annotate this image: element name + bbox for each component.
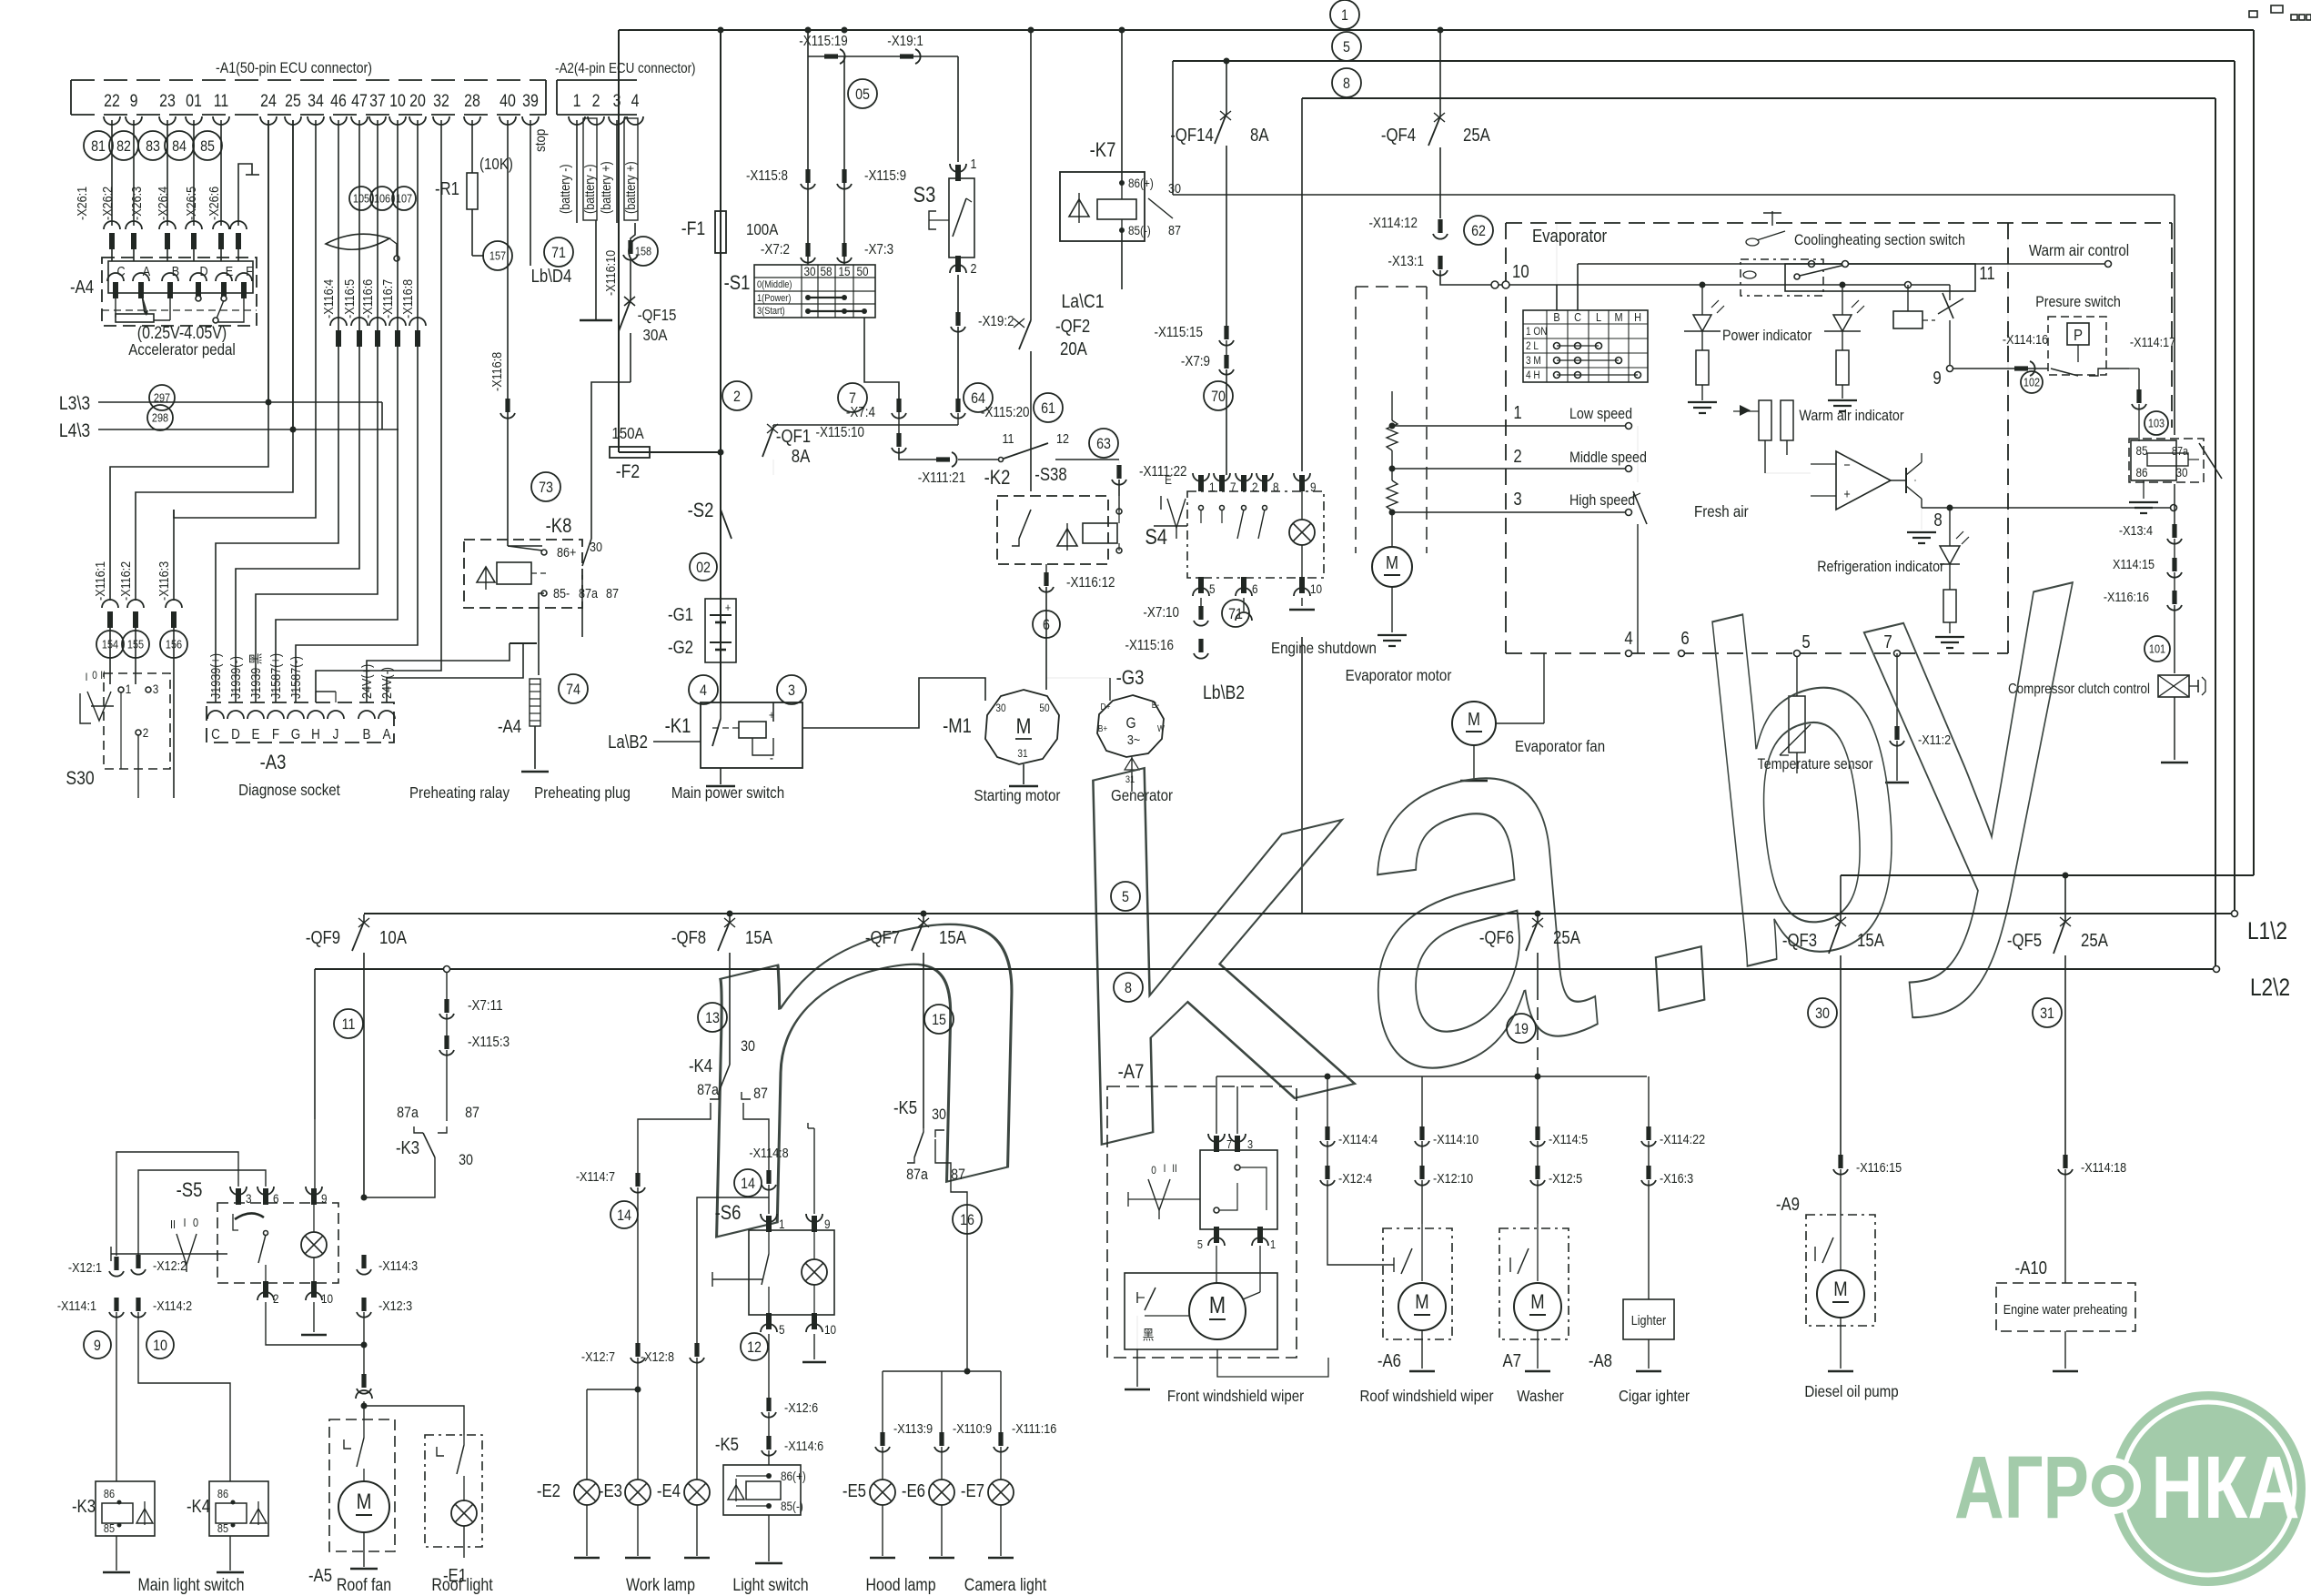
svg-text:Warm air indicator: Warm air indicator [1799,408,1903,424]
svg-text:C: C [1574,310,1581,324]
node 8 bus circle [1332,68,1361,97]
svg-text:3: 3 [613,91,621,111]
connector X7:9 [1226,340,1227,357]
svg-text:86: 86 [104,1487,115,1500]
svg-text:-X114:1: -X114:1 [57,1298,96,1313]
roof fan feed connectors [361,1255,366,1268]
svg-text:25A: 25A [2081,930,2108,951]
svg-text:158: 158 [635,245,652,258]
svg-text:46: 46 [330,91,347,111]
svg-text:АГР: АГР [1954,1439,2089,1537]
svg-text:-QF3: -QF3 [1782,930,1817,951]
svg-text:82: 82 [116,138,131,155]
svg-text:-A9: -A9 [1776,1194,1800,1215]
svg-text:0: 0 [193,1216,198,1229]
svg-text:II: II [100,670,106,682]
svg-text:83: 83 [146,138,160,155]
svg-text:-QF4: -QF4 [1381,125,1416,146]
svg-text:87a: 87a [697,1082,719,1098]
connector X7:4 [896,399,901,412]
node 73 [531,472,560,501]
svg-text:39: 39 [522,91,539,111]
svg-text:2: 2 [970,260,976,276]
svg-text:-QF5: -QF5 [2007,930,2042,951]
svg-text:-K4: -K4 [187,1496,210,1517]
svg-text:58: 58 [820,264,832,278]
dashed joints 4 6 [1626,651,1632,657]
svg-text:M: M [1415,1292,1428,1314]
svg-text:J: J [333,727,339,742]
svg-text:Fresh air: Fresh air [1694,502,1749,521]
logo AGRO NKA [1954,1391,2306,1586]
svg-text:15A: 15A [1857,930,1884,951]
compressor chain [2174,484,2175,526]
svg-text:L2\2: L2\2 [2250,974,2290,1001]
ground hook A3 [510,642,537,644]
connector X12:2 [136,1255,140,1268]
svg-text:87: 87 [951,1167,965,1183]
svg-text:L4\3: L4\3 [59,420,90,442]
svg-text:H: H [311,727,320,742]
svg-text:H: H [1634,310,1641,324]
corner marks top right [2249,11,2257,17]
svg-text:(battery +): (battery +) [598,161,613,214]
svg-text:5: 5 [1343,39,1350,56]
svg-text:5: 5 [1209,581,1216,596]
svg-text:10: 10 [1310,581,1322,596]
svg-text:-X7:11: -X7:11 [468,998,503,1014]
node 31 [2033,998,2062,1027]
node 61 [1034,393,1063,422]
coolingheating section switch [1785,264,1975,291]
wires to K3 K4 coils [116,1312,117,1481]
svg-text:30: 30 [1168,180,1181,196]
svg-text:-K8: -K8 [546,516,572,538]
svg-text:-X116:4: -X116:4 [320,279,336,318]
cigar lighter A8 [1648,1224,1650,1299]
svg-text:298: 298 [152,411,169,425]
node 298 [147,405,173,430]
svg-text:-S1: -S1 [724,273,751,295]
wire S1 30 column [807,30,809,265]
svg-text:Hood lamp: Hood lamp [865,1575,935,1595]
wire S4 pin10 ground [1301,598,1303,606]
svg-text:黑: 黑 [1143,1327,1155,1342]
svg-text:10: 10 [321,1291,333,1306]
svg-text:150A: 150A [611,424,644,443]
K8 contact [590,525,592,539]
svg-text:-X19:2: -X19:2 [978,314,1014,329]
svg-text:-E4: -E4 [657,1480,681,1501]
svg-text:86(+): 86(+) [1128,176,1154,190]
connector X116:12 [1045,564,1047,573]
svg-text:-X116:1: -X116:1 [92,561,107,601]
svg-text:Accelerator pedal: Accelerator pedal [128,340,236,359]
svg-text:Roof windshield wiper: Roof windshield wiper [1360,1387,1494,1406]
wire S6 pin9 up [813,1128,815,1214]
svg-text:X114:15: X114:15 [2113,556,2155,571]
wire K8 85 to plug [539,593,544,675]
svg-text:-X26:4: -X26:4 [155,187,170,220]
svg-text:-K3: -K3 [72,1496,96,1517]
svg-text:-X114:18: -X114:18 [2081,1159,2126,1175]
svg-text:Power indicator: Power indicator [1722,328,1811,344]
svg-text:40: 40 [500,91,516,111]
svg-text:Preheating ralay: Preheating ralay [409,783,510,803]
speed table [1523,310,1648,382]
wire S4 pin6 down [1243,598,1245,611]
pedal switch [196,296,201,301]
svg-text:-X12:5: -X12:5 [1549,1170,1582,1186]
svg-text:E: E [1165,472,1172,487]
wire bus5 y67 [1173,60,2235,62]
svg-text:-X114:4: -X114:4 [1338,1131,1378,1146]
wire net10 line y313 [1557,284,1950,286]
hood camera feed line [883,1370,1001,1372]
svg-text:24: 24 [260,91,277,111]
node 05 [848,79,877,108]
svg-text:Roof light: Roof light [431,1575,492,1595]
battery G1 G2 [705,599,736,662]
svg-text:103: 103 [2148,417,2165,430]
svg-text:-X115:10: -X115:10 [815,425,864,440]
svg-text:1: 1 [970,156,976,171]
wire QF4 into evap [1440,270,1557,285]
svg-text:85: 85 [2135,443,2147,458]
breaker QF5 25A [2064,875,2066,921]
wire K7 30 riser [1172,61,1174,195]
roof fan A5 [329,1419,395,1551]
svg-text:7: 7 [1230,480,1236,494]
svg-text:-X116:6: -X116:6 [359,279,375,318]
svg-text:-K2: -K2 [984,468,1011,490]
svg-text:-X116:2: -X116:2 [117,561,133,601]
wire K1 to M1 [802,678,985,728]
svg-text:k: k [1052,627,1366,1260]
svg-text:12: 12 [1056,430,1069,446]
svg-text:50: 50 [1039,702,1049,714]
battery labels A2 [576,120,578,223]
svg-text:-QF7: -QF7 [865,927,900,948]
svg-text:P: P [2074,326,2083,345]
S4 lamp [1289,520,1315,545]
svg-text:8: 8 [1343,76,1350,92]
svg-text:-X12:6: -X12:6 [784,1399,818,1415]
svg-text:16: 16 [960,1212,974,1228]
svg-text:M: M [1614,310,1622,324]
svg-text:E: E [226,263,233,278]
svg-text:-QF8: -QF8 [671,927,706,948]
svg-text:-X12:8: -X12:8 [641,1349,674,1364]
svg-text:M: M [357,1489,372,1513]
svg-text:22: 22 [104,91,120,111]
wire QF14 to S4 pin7 [1222,474,1226,476]
S5 internals [233,1214,238,1230]
node 85 [193,131,222,160]
svg-text:30: 30 [995,702,1005,714]
node 2 [722,381,752,410]
connector X111:22 [1118,460,1120,464]
svg-text:5: 5 [1122,889,1129,905]
svg-text:-X116:12: -X116:12 [1066,575,1115,591]
svg-text:11: 11 [214,91,229,111]
svg-text:M: M [1530,1292,1544,1314]
node 3 [777,675,806,704]
node 11 [334,1009,363,1038]
work lamps E2 E3 E4 [635,1343,640,1357]
node 83 [138,131,167,160]
svg-text:L3\3: L3\3 [59,393,90,415]
svg-text:Front windshield wiper: Front windshield wiper [1167,1387,1305,1406]
svg-text:8: 8 [1125,980,1132,996]
svg-text:-X114:17: -X114:17 [2130,334,2175,349]
svg-text:Low speed: Low speed [1569,406,1632,422]
svg-text:30: 30 [803,264,815,278]
svg-text:87a: 87a [906,1167,928,1183]
wire right edge vertical net5 [2234,61,2235,914]
svg-text:-X19:1: -X19:1 [887,34,923,49]
svg-text:15A: 15A [939,927,966,948]
svg-text:02: 02 [696,560,711,576]
wire bus1 left vertical [618,30,620,452]
svg-text:9: 9 [130,91,138,111]
wire to roof light E1 [364,1406,464,1435]
svg-text:1: 1 [1513,402,1521,423]
svg-text:-G1: -G1 [668,604,693,625]
wire K7 to compressor line [1173,194,2175,196]
svg-text:-X12:3: -X12:3 [378,1298,412,1313]
breaker QF6 25A [1535,911,1541,917]
svg-text:-K5: -K5 [715,1434,739,1455]
svg-text:-X16:3: -X16:3 [1660,1170,1693,1186]
connector X114:7 [635,1173,640,1187]
wiper ground [1136,1349,1138,1387]
svg-text:9: 9 [94,1338,101,1354]
breaker QF15 30A [630,260,631,300]
svg-text:II: II [1172,1163,1177,1175]
svg-text:9: 9 [1933,368,1941,389]
wire right edge vertical net1 [2253,30,2255,875]
svg-text:-X111:22: -X111:22 [1139,464,1187,480]
node 105 [349,187,373,210]
svg-text:30A: 30A [643,326,669,345]
node 5 bottom [1111,882,1140,911]
wire L3 [98,401,382,403]
svg-text:-X114:6: -X114:6 [784,1438,823,1453]
svg-text:-X13:1: -X13:1 [1388,254,1424,269]
evaporator fan [1452,702,1496,745]
node 5 bus circle [1332,32,1361,61]
wire right edge vertical net8 [2215,98,2216,968]
svg-text:Diagnose socket: Diagnose socket [238,781,340,800]
svg-text:-X26:1: -X26:1 [74,187,89,220]
svg-text:-X116:8: -X116:8 [489,352,504,391]
connector X12:1 [114,1257,118,1270]
svg-text:9: 9 [1310,480,1317,494]
wire staircase bundle to A3 [216,120,338,702]
svg-text:11: 11 [342,1016,356,1033]
svg-text:-X114:10: -X114:10 [1433,1131,1478,1146]
svg-text:50: 50 [856,264,868,278]
svg-text:101: 101 [2149,642,2166,656]
pedal potentiometer [116,314,154,322]
svg-text:4: 4 [631,91,640,111]
svg-text:87a: 87a [579,585,598,601]
svg-text:8A: 8A [1250,125,1269,146]
node 6 [1033,611,1060,638]
ground battery minus [580,319,612,321]
svg-text:-F2: -F2 [616,461,640,483]
svg-text:+: + [725,601,731,614]
wire bus L2 y1065 [315,968,2215,970]
evap motor dashed box [1355,287,1357,553]
node 19 [1507,1014,1536,1043]
node 15 [924,1005,954,1034]
connector X116:10 [628,240,632,254]
svg-text:15: 15 [838,264,850,278]
wire y467 QF1 [773,424,958,426]
svg-text:10A: 10A [379,927,407,948]
wire S6 pin5 chain [768,1334,770,1398]
svg-text:25: 25 [285,91,301,111]
svg-text:-X7:4: -X7:4 [846,405,875,420]
relay coil mid [1893,311,1922,328]
svg-text:0: 0 [92,670,97,682]
breaker QF14 8A [1226,61,1227,114]
svg-text:87: 87 [465,1105,479,1121]
svg-text:-X116:16: -X116:16 [2104,589,2149,604]
connector X7:3 [842,243,846,257]
svg-text:10: 10 [824,1322,836,1337]
svg-text:-E6: -E6 [902,1480,925,1501]
svg-text:86: 86 [217,1487,228,1500]
svg-text:-X111:21: -X111:21 [918,470,966,486]
svg-text:-K4: -K4 [689,1056,712,1076]
svg-text:Warm air control: Warm air control [2029,241,2129,260]
svg-text:87a: 87a [2172,444,2189,458]
connector X115:20 [955,399,960,412]
svg-text:Evaporator: Evaporator [1532,226,1607,247]
svg-text:85(-): 85(-) [781,1499,803,1513]
svg-text:2: 2 [1513,446,1521,467]
svg-text:25A: 25A [1553,927,1580,948]
wiper bottom wire [1217,1349,1328,1377]
svg-text:L: L [1596,310,1601,324]
wire bus L1 y1004 [364,913,2235,914]
node 63 [1089,429,1118,458]
fuse F1 100A [715,211,726,253]
washer A7 [1499,1228,1569,1339]
svg-text:G: G [291,727,300,742]
roof wiper A6 [1383,1228,1452,1339]
svg-text:-K7: -K7 [1090,140,1116,162]
svg-text:15: 15 [932,1012,946,1028]
svg-text:-A3: -A3 [260,753,287,774]
svg-text:157: 157 [489,249,507,263]
node 19 line verticals [1327,1076,1328,1128]
node 157 [483,241,512,270]
svg-text:-X115:19: -X115:19 [799,34,848,49]
svg-text:-X115:16: -X115:16 [1125,638,1174,653]
svg-text:-X110:9: -X110:9 [953,1420,992,1436]
svg-text:-A1(50-pin ECU connector): -A1(50-pin ECU connector) [216,60,372,76]
svg-text:30: 30 [590,539,602,554]
wire S4 pin9 to bus8 [1301,98,1303,471]
svg-text:-K5: -K5 [893,1097,917,1118]
wire S4 pin5 down [1200,598,1202,608]
wire 24V+ to A3 B [367,643,510,702]
svg-text:L1\2: L1\2 [2247,917,2287,944]
svg-text:-A10: -A10 [2015,1258,2047,1278]
S5 lever [177,1234,197,1265]
svg-text:-A4: -A4 [498,716,521,737]
wire stairs to X116 1-3 [110,120,268,510]
svg-text:-X114:2: -X114:2 [153,1298,192,1313]
wire S5 supply from L2 [314,969,316,1119]
svg-text:D: D [199,263,207,278]
wire X115:10 branch [898,425,900,435]
svg-text:74: 74 [566,682,580,698]
svg-text:НКА: НКА [2151,1439,2299,1537]
svg-text:4 H: 4 H [1526,369,1540,381]
evaporator dashed enclosure [1506,222,2172,224]
svg-text:stop: stop [533,129,549,152]
svg-text:2: 2 [143,725,149,740]
svg-text:3 M: 3 M [1526,355,1541,367]
temperature sensor [1796,653,1798,696]
svg-text:30: 30 [1815,1005,1830,1022]
svg-text:2: 2 [1252,480,1258,494]
svg-text:-S6: -S6 [715,1203,742,1225]
svg-text:-X116:15: -X116:15 [1856,1159,1902,1175]
node 13 [698,1003,727,1032]
connector X111:16 [998,1432,1003,1446]
svg-text:-X26:2: -X26:2 [99,187,115,220]
roof light E1 [425,1435,482,1547]
svg-text:-A5: -A5 [308,1565,332,1586]
svg-text:-X13:4: -X13:4 [2119,522,2153,538]
svg-text:10: 10 [153,1338,167,1354]
main power switch K1 [701,702,802,768]
breaker QF4 25A [1439,30,1441,116]
svg-text:1: 1 [126,682,132,696]
svg-text:B: B [363,727,371,742]
wire QF15 to K8 [591,382,631,525]
svg-text:87: 87 [606,585,619,601]
svg-text:Camera light: Camera light [964,1575,1047,1595]
node 156 [160,631,187,658]
svg-text:-X114:5: -X114:5 [1549,1131,1588,1146]
NC contact [1949,285,1951,300]
node 106 [370,187,394,210]
svg-text:31: 31 [2040,1005,2054,1022]
svg-text:87: 87 [753,1086,768,1102]
svg-text:3: 3 [1247,1137,1253,1151]
svg-text:-A4: -A4 [70,277,94,298]
svg-text:-QF9: -QF9 [306,927,340,948]
node 10b [146,1331,174,1359]
svg-text:2 L: 2 L [1526,340,1539,352]
wire K4 87 to X114:8 [743,1103,769,1172]
svg-text:1: 1 [1341,7,1348,24]
node 155 [122,631,149,658]
connectors X116:4-8 [330,318,347,326]
wire x1431 lower [1301,637,1303,914]
cable oval [326,234,389,249]
svg-text:-QF14: -QF14 [1170,125,1214,146]
svg-text:37: 37 [369,91,386,111]
svg-text:3: 3 [788,682,795,699]
